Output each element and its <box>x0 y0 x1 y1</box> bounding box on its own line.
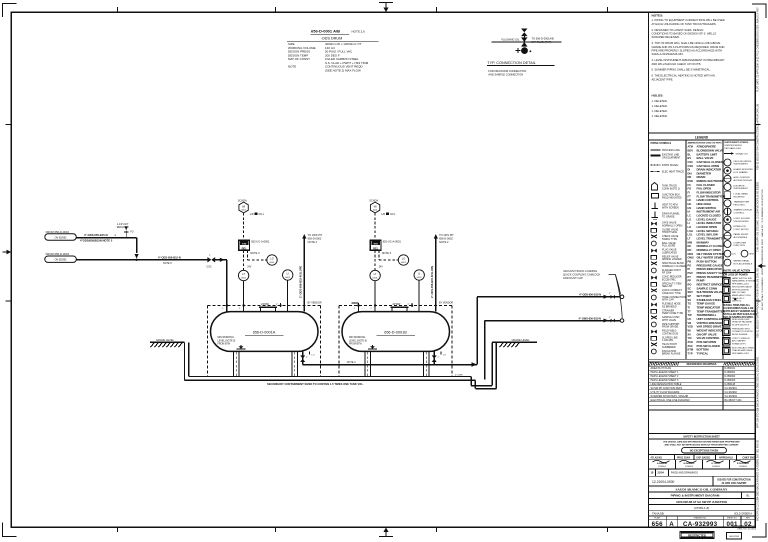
svg-text:CONTINUOUS: CONTINUOUS <box>662 332 678 335</box>
svg-text:MIN WORKING: MIN WORKING <box>218 337 234 339</box>
svg-text:TEMP CONE TYPE: TEMP CONE TYPE <box>662 312 683 315</box>
svg-text:MICROFILM 12-21004-0000 SAUDI: MICROFILM 12-21004-0000 SAUDI ARAMCO CA-… <box>757 439 760 521</box>
vessel 656-D-0001A <box>211 312 319 352</box>
dcs interface box 652-UC-A-0002 <box>370 240 401 255</box>
svg-text:CONTROL: CONTROL <box>734 213 745 215</box>
svg-text:FUNCTION: FUNCTION <box>734 245 746 247</box>
svg-text:2"-ODS-656-B15-N SLOPE: 2"-ODS-656-B15-N SLOPE <box>430 266 434 298</box>
svg-text:NO.1: NO.1 <box>390 214 396 216</box>
svg-text:SAUDI ARAMCO OIL COMPANY: SAUDI ARAMCO OIL COMPANY <box>675 487 728 491</box>
svg-text:CSC: CSC <box>688 160 694 164</box>
svg-text:4"-OWS: 4"-OWS <box>455 375 463 377</box>
svg-text:4. LEVEL INSTRUMENT ARRANGEMEN: 4. LEVEL INSTRUMENT ARRANGEMENT IS PRELI… <box>652 58 725 62</box>
svg-text:SKID EDGE LIMIT: SKID EDGE LIMIT <box>732 319 750 321</box>
svg-text:LEVEL (NOTE 8): LEVEL (NOTE 8) <box>349 340 367 342</box>
svg-text:D-950003: D-950003 <box>725 379 736 382</box>
svg-text:TRANSMITTER: TRANSMITTER <box>734 201 750 204</box>
legend table <box>649 133 756 362</box>
svg-text:RESTRICTED: RESTRICTED <box>688 534 706 538</box>
reducer callout <box>117 223 134 238</box>
svg-text:FIELD MOUNTED: FIELD MOUNTED <box>734 161 752 163</box>
svg-text:PIPING & INSTRUMENT DIAGRAM: PIPING & INSTRUMENT DIAGRAM <box>671 494 720 498</box>
off-page connector upper <box>620 295 624 299</box>
svg-text:D-950001: D-950001 <box>725 371 736 374</box>
svg-text:PEFS LEGEND SHEET 1: PEFS LEGEND SHEET 1 <box>651 371 680 374</box>
svg-text:INTERLOCK: INTERLOCK <box>734 226 747 228</box>
svg-text:24V: 24V <box>247 267 252 269</box>
svg-text:6. THE ELECTRICAL HEATING IS N: 6. THE ELECTRICAL HEATING IS NOTED WITH … <box>652 74 715 78</box>
svg-text:SS: SS <box>688 298 692 302</box>
svg-text:LG: LG <box>270 257 273 261</box>
pipe lower feed header <box>76 256 207 266</box>
svg-text:FO: FO <box>130 232 133 234</box>
svg-text:VB: VB <box>688 321 692 325</box>
svg-text:SHARED DISPLAY: SHARED DISPLAY <box>734 209 753 212</box>
svg-text:ECCENTRIC: ECCENTRIC <box>662 278 676 281</box>
svg-text:ATLAS NO: ATLAS NO <box>651 456 663 459</box>
svg-text:SAES-A-004/SAES-B-064.: SAES-A-004/SAES-B-064. <box>652 52 684 56</box>
svg-text:SWING TYPE: SWING TYPE <box>662 238 677 241</box>
svg-text:(SEE NOTE 2) MAX FLOW: (SEE NOTE 2) MAX FLOW <box>325 68 361 72</box>
svg-text:ODS DRUM: ODS DRUM <box>322 36 343 40</box>
svg-text:656-D-0002: 656-D-0002 <box>308 237 322 241</box>
svg-text:21/04: 21/04 <box>658 472 665 475</box>
svg-text:2: 2 <box>222 308 223 310</box>
svg-text:ACCESSIBLE: ACCESSIBLE <box>734 236 748 239</box>
svg-text:HAND SWITCH ESD: HAND SWITCH ESD <box>732 277 753 280</box>
svg-text:STEAM (TYP): STEAM (TYP) <box>732 342 746 345</box>
vent line to ODS pit 656-D-0001B <box>430 233 454 311</box>
grade level left <box>150 338 185 347</box>
svg-text:WITH SOLENOID: WITH SOLENOID <box>732 289 750 291</box>
svg-text:ON 932992: ON 932992 <box>55 260 67 262</box>
svg-text:NOTE 2,6: NOTE 2,6 <box>352 30 366 34</box>
svg-text:BA-950277-001: BA-950277-001 <box>725 399 743 402</box>
svg-text:FI: FI <box>688 191 691 195</box>
svg-text:NUMBERED: NUMBERED <box>662 346 676 349</box>
svg-text:PLANT: PLANT <box>654 517 661 520</box>
svg-text:PG: PG <box>688 263 692 267</box>
svg-text:FLUSHING OIL: FLUSHING OIL <box>501 38 520 42</box>
svg-text:WITH CAP: WITH CAP <box>662 299 674 302</box>
svg-text:LI: LI <box>287 272 289 276</box>
svg-text:656-D-0001A: 656-D-0001A <box>253 330 276 334</box>
svg-text:CAMLOCK TYPE: CAMLOCK TYPE <box>662 292 681 295</box>
svg-text:NOTE 2: NOTE 2 <box>439 240 449 244</box>
svg-text:656-D-0001 A/B: 656-D-0001 A/B <box>311 29 340 34</box>
svg-text:ZSC: ZSC <box>688 344 693 348</box>
svg-text:D-950118: D-950118 <box>725 383 736 386</box>
off-page connector lower <box>620 319 624 323</box>
svg-text:FROM GRADE: FROM GRADE <box>662 326 679 329</box>
svg-text:LEVEL (NOTE 8): LEVEL (NOTE 8) <box>218 340 236 342</box>
level gauge LG 656-D-0001B <box>398 255 408 265</box>
svg-text:NOTE: NOTE <box>288 65 296 69</box>
svg-text:DR: DR <box>688 175 692 179</box>
svg-text:BV: BV <box>688 156 692 160</box>
reference drawings table <box>649 362 756 409</box>
svg-text:3. TOP OF DRUM WILL SHALL BE 1: 3. TOP OF DRUM WILL SHALL BE 1200mm MIN … <box>652 41 721 45</box>
scada hexagon WI 656-D-0001B <box>369 199 396 216</box>
support leg 1 656-D-0001B <box>365 351 370 376</box>
svg-text:BEHIND PANEL: BEHIND PANEL <box>734 260 751 263</box>
svg-text:TO ODS PIT: TO ODS PIT <box>308 233 323 237</box>
svg-text:LT: LT <box>374 272 377 276</box>
svg-text:WI: WI <box>242 205 245 208</box>
svg-text:PROJ 21004: PROJ 21004 <box>677 456 691 459</box>
svg-text:24"MW: 24"MW <box>261 303 269 306</box>
svg-text:IA: IA <box>688 210 691 214</box>
svg-text:YIC: YIC <box>688 336 692 340</box>
signal wire dcs to LT 656-D-0001A <box>244 250 252 270</box>
svg-text:DISCRETE: DISCRETE <box>734 185 746 187</box>
svg-text:WITH VALVE: WITH VALVE <box>662 319 677 322</box>
svg-text:TO GRADE: TO GRADE <box>662 215 675 218</box>
svg-text:DO NOT SCALE THIS DRAWING - VE: DO NOT SCALE THIS DRAWING - VERIFY ALL D… <box>761 189 764 310</box>
svg-text:SA SW PP JUNCTION PEFS: SA SW PP JUNCTION PEFS <box>651 387 683 390</box>
svg-text:TYPICAL: TYPICAL <box>697 351 709 355</box>
svg-text:LT: LT <box>688 237 691 241</box>
svg-text:5. SUMMER PIPING SHALL BE SYMM: 5. SUMMER PIPING SHALL BE SYMMETRICAL. <box>652 68 711 72</box>
svg-text:LC: LC <box>688 214 692 218</box>
svg-text:BOARD MOUNTED: BOARD MOUNTED <box>734 168 754 171</box>
svg-text:FC: FC <box>688 183 692 187</box>
svg-text:ODS DRUM AT SA SW PP JUNCTION: ODS DRUM AT SA SW PP JUNCTION <box>676 500 726 504</box>
svg-text:4"ODS(656)B15N NOTE 5: 4"ODS(656)B15N NOTE 5 <box>80 238 113 242</box>
svg-text:SCOPE (NOTE 7): SCOPE (NOTE 7) <box>732 324 750 326</box>
svg-text:1. PIPING TO EQUIPMENT CONNECT: 1. PIPING TO EQUIPMENT CONNECTIONS WILL … <box>652 18 725 22</box>
svg-text:MOUNTED: MOUNTED <box>734 196 745 198</box>
svg-text:UTILITY FLOW DIAGRAM: UTILITY FLOW DIAGRAM <box>651 391 680 394</box>
svg-text:2": 2" <box>438 357 440 359</box>
svg-text:APPROVALS: APPROVALS <box>719 456 733 459</box>
svg-text:ON 932992: ON 932992 <box>55 237 67 239</box>
svg-text:PER SAES-J-901: PER SAES-J-901 <box>732 352 750 355</box>
svg-text:LG: LG <box>402 257 405 261</box>
svg-text:TYP: TYP <box>688 351 693 355</box>
svg-text:FROM 656-D-0002: FROM 656-D-0002 <box>46 230 70 234</box>
svg-text:WI: WI <box>374 205 377 208</box>
svg-text:LOGIC (NOTE): LOGIC (NOTE) <box>734 229 749 231</box>
legend equipment symbols <box>651 183 686 356</box>
svg-text:NOTE 9: NOTE 9 <box>163 262 172 265</box>
svg-text:BLIND FLANGE: BLIND FLANGE <box>732 333 748 336</box>
svg-text:PRESSURE TEST: PRESSURE TEST <box>732 329 750 331</box>
signal wire hexagon to dcs box 656-D-0001B <box>374 213 376 240</box>
svg-text:NOTES:: NOTES: <box>652 13 664 17</box>
drain valve 656-D-0001B <box>432 351 447 364</box>
svg-text:HH: HH <box>688 202 692 206</box>
svg-text:DIA: DIA <box>688 171 693 175</box>
svg-text:FROM BTM: FROM BTM <box>349 344 361 346</box>
wire vertical joining feeds <box>135 238 139 259</box>
svg-text:CA-932993: CA-932993 <box>729 535 740 538</box>
off-page connector FROM 656-D-0002 <box>45 230 77 240</box>
svg-text:656-D-0001B: 656-D-0001B <box>384 330 407 334</box>
svg-text:AIR / WATER /: AIR / WATER / <box>732 340 746 343</box>
svg-text:DRAWING NO.: DRAWING NO. <box>694 517 707 520</box>
svg-text:SPRING LOADED: SPRING LOADED <box>662 258 682 261</box>
svg-text:NO: NO <box>688 248 692 252</box>
min working level mark 656-D-0001B <box>349 337 377 349</box>
riser to truck loading <box>476 297 478 365</box>
legend esd section <box>723 269 758 319</box>
svg-text:NORMALLY OPEN: NORMALLY OPEN <box>662 224 683 227</box>
legend package scope squares <box>723 319 755 355</box>
margin revision text <box>757 7 765 521</box>
svg-text:IDENTIFICATION: IDENTIFICATION <box>725 144 743 147</box>
svg-text:REV 02 ISSUED FOR CONSTRUCTION: REV 02 ISSUED FOR CONSTRUCTION 21-APR-04… <box>757 104 760 170</box>
svg-text:D-950021: D-950021 <box>725 367 736 370</box>
svg-text:TW: TW <box>688 313 693 317</box>
svg-text:PEFS LEGEND SHEET 3: PEFS LEGEND SHEET 3 <box>651 379 680 382</box>
svg-text:(UTMN-1-8): (UTMN-1-8) <box>694 506 709 510</box>
off-page connector FROM 656-D-0003 <box>45 252 77 263</box>
svg-text:AREA PLOT PLAN: AREA PLOT PLAN <box>651 367 672 370</box>
pipe upper feed <box>76 233 136 242</box>
nozzle dots 656-D-0001A <box>222 301 322 310</box>
svg-text:MIN WORKING: MIN WORKING <box>349 337 365 339</box>
svg-text:LO: LO <box>688 225 692 229</box>
svg-text:AND DUST CAP: AND DUST CAP <box>563 276 583 280</box>
svg-text:24"MW: 24"MW <box>393 303 401 306</box>
support leg 1 656-D-0001A <box>233 351 238 376</box>
svg-text:FT: FT <box>688 194 692 198</box>
svg-text:SC: SC <box>688 286 692 290</box>
svg-text:2: 2 <box>371 308 372 310</box>
svg-text:MAT OF CONST: MAT OF CONST <box>288 57 310 61</box>
svg-text:BY VENDOR: BY VENDOR <box>308 301 322 304</box>
svg-text:LSH: LSH <box>688 229 693 233</box>
svg-text:2: 2 <box>239 308 240 310</box>
svg-text:CONDITIONS TO BASED ON DESIGN: CONDITIONS TO BASED ON DESIGN OF S. WELL… <box>652 32 717 36</box>
level indicator LI 656-D-0001B <box>414 270 424 280</box>
svg-text:FO: FO <box>688 187 692 191</box>
svg-text:LOGIC SOLVER: LOGIC SOLVER <box>734 218 751 220</box>
svg-text:1. DELETED.: 1. DELETED. <box>652 114 668 118</box>
svg-text:652-UC-A-0001: 652-UC-A-0001 <box>383 240 402 244</box>
svg-text:FIELD MOUNTED: FIELD MOUNTED <box>662 197 682 200</box>
svg-text:BREAK FLANGE: BREAK FLANGE <box>662 353 681 356</box>
svg-text:2": 2" <box>609 293 611 295</box>
svg-text:SOLD ORDER A: SOLD ORDER A <box>734 512 752 515</box>
svg-text:TANAJIB: TANAJIB <box>652 511 664 515</box>
insulation dashed boundary 656-D-0001B <box>339 306 452 377</box>
svg-text:BL: BL <box>688 152 692 156</box>
svg-text:TI: TI <box>688 305 691 309</box>
svg-text:GRADE AND ON A PLATFORM AS REQ: GRADE AND ON A PLATFORM AS REQUIRED, DRU… <box>652 45 725 49</box>
svg-text:LI: LI <box>418 272 420 276</box>
svg-text:VSD: VSD <box>688 325 693 329</box>
signal wire dcs to LG 656-D-0001A <box>248 250 267 260</box>
svg-text:4"-ODS-656-B15-N: 4"-ODS-656-B15-N <box>158 256 181 260</box>
svg-text:HS: HS <box>688 206 692 210</box>
panel divider <box>648 12 650 527</box>
svg-text:TRACED AND INSUL: TRACED AND INSUL <box>732 349 754 352</box>
svg-text:PLOT DATE: 22-APR-2004 14:32 F: PLOT DATE: 22-APR-2004 14:32 FILE: CA932… <box>757 7 760 92</box>
svg-text:MW: MW <box>688 240 693 244</box>
svg-text:ACCESS DISPLAY: ACCESS DISPLAY <box>734 179 753 182</box>
svg-text:DCS SHARED: DCS SHARED <box>734 171 749 174</box>
svg-text:PIPE ARE PROPERLY SLOPED AS AC: PIPE ARE PROPERLY SLOPED AS ACCORDANCE W… <box>652 49 723 53</box>
svg-text:CONNECTION WITH: CONNECTION WITH <box>732 331 753 333</box>
title block <box>649 434 756 529</box>
svg-text:TYP. CONNECTION DETAIL: TYP. CONNECTION DETAIL <box>487 61 536 65</box>
svg-text:LINE DESIGNATION TABLE: LINE DESIGNATION TABLE <box>651 383 682 386</box>
svg-text:SCADA: SCADA <box>369 199 378 203</box>
grade level right <box>492 338 537 347</box>
svg-text:ADJACENT PIPE.: ADJACENT PIPE. <box>652 77 674 81</box>
svg-text:CA-932991: CA-932991 <box>725 387 738 390</box>
svg-text:RF 150#: RF 150# <box>662 272 672 275</box>
svg-text:NORMALLY CLOSED: NORMALLY CLOSED <box>662 265 686 268</box>
manway 656-D-0001A <box>259 303 282 311</box>
svg-text:K.YUSUF: K.YUSUF <box>711 463 721 465</box>
svg-text:22/04/04: 22/04/04 <box>658 466 667 468</box>
svg-text:THROTTLING: THROTTLING <box>662 231 677 234</box>
svg-text:L/R: L/R <box>250 213 254 216</box>
svg-text:652-UC-A-0001: 652-UC-A-0001 <box>251 240 270 244</box>
svg-text:SAFETY INSTRUCTION SHEET: SAFETY INSTRUCTION SHEET <box>683 436 720 439</box>
svg-text:TO ODS PIT: TO ODS PIT <box>439 233 454 237</box>
signal wire dcs to LG 656-D-0001B <box>379 250 398 260</box>
svg-text:THE DESIGN, DATA AND INFORMATI: THE DESIGN, DATA AND INFORMATION SHOWN H… <box>663 440 740 443</box>
legend instrument symbols <box>724 142 754 266</box>
instrument line LT nozzle 656-D-0001A <box>243 281 245 312</box>
svg-text:FULL BORE: FULL BORE <box>662 245 676 248</box>
dcs interface box 652-UC-A-0001 <box>239 240 270 255</box>
svg-text:NO EXCEPTIONS TAKEN: NO EXCEPTIONS TAKEN <box>690 450 719 453</box>
containment berm outline <box>185 342 497 388</box>
svg-text:ELEC HEAT TRACE: ELEC HEAT TRACE <box>662 170 684 173</box>
svg-text:BTM: BTM <box>688 348 694 352</box>
instrument line LI nozzle 656-D-0001B <box>418 280 420 311</box>
drop into sump <box>484 321 486 380</box>
svg-text:SAUDI ARAMCO 3297-001: SAUDI ARAMCO 3297-001 <box>732 524 757 527</box>
svg-text:REM: REM <box>749 254 754 256</box>
svg-text:0001: 0001 <box>417 277 423 279</box>
svg-text:SP: SP <box>688 294 692 298</box>
typ connection detail <box>487 29 562 77</box>
svg-text:LI: LI <box>688 221 691 225</box>
svg-text:0001: 0001 <box>270 262 276 264</box>
level indicator LI 656-D-0001A <box>283 270 293 280</box>
svg-text:VENDOR PACKAGE: VENDOR PACKAGE <box>732 321 753 324</box>
svg-text:12-21004-0000: 12-21004-0000 <box>652 480 675 484</box>
svg-text:REL: REL <box>242 246 248 250</box>
wire feed to vessel A inlet <box>215 258 227 312</box>
svg-text:(NOTE 5): (NOTE 5) <box>732 301 741 303</box>
svg-text:0001: 0001 <box>401 262 407 264</box>
svg-text:0001: 0001 <box>241 277 247 279</box>
svg-text:SHUTDOWN VALVE: SHUTDOWN VALVE <box>732 286 752 289</box>
svg-text:FROM BTM: FROM BTM <box>218 344 230 346</box>
level gauge LG 656-D-0001A <box>267 255 277 265</box>
svg-text:QUICK COUPLING CAMLOCK: QUICK COUPLING CAMLOCK <box>563 273 601 277</box>
svg-text:22/04/04: 22/04/04 <box>712 466 721 468</box>
svg-text:HOLDS:: HOLDS: <box>652 93 664 97</box>
svg-text:ODS: ODS <box>688 252 694 256</box>
svg-text:▼: ▼ <box>114 234 116 237</box>
svg-text:2": 2" <box>276 304 278 306</box>
svg-text:GRADE LEVEL: GRADE LEVEL <box>512 338 531 342</box>
svg-text:STD: STD <box>374 244 379 246</box>
svg-text:LEGEND: LEGEND <box>695 135 709 139</box>
restricted stamp <box>680 532 714 538</box>
svg-text:UTILITY STATION: UTILITY STATION <box>732 337 750 340</box>
svg-text:GRADE LEVEL: GRADE LEVEL <box>156 338 175 342</box>
svg-text:CSC: CSC <box>207 266 212 269</box>
svg-text:22/04/04: 22/04/04 <box>685 466 694 468</box>
svg-text:2: 2 <box>354 308 355 310</box>
signal wire dcs to LT 656-D-0001B <box>375 250 383 270</box>
doc control stamp <box>727 524 757 538</box>
svg-text:PEFS LEGEND SHEET 2: PEFS LEGEND SHEET 2 <box>651 375 680 378</box>
svg-text:0001: 0001 <box>285 277 291 279</box>
svg-text:CA-932994: CA-932994 <box>725 395 738 398</box>
svg-text:CA-932992: CA-932992 <box>725 391 738 394</box>
svg-text:NOTE 3: NOTE 3 <box>382 251 392 255</box>
vessel 656-D-0001B <box>342 312 450 352</box>
svg-text:656: 656 <box>652 521 663 528</box>
svg-text:ON LOSS OF POWER: ON LOSS OF POWER <box>724 273 749 276</box>
svg-text:22 APR 2004 SA/PMT: 22 APR 2004 SA/PMT <box>721 482 747 485</box>
svg-text:NC: NC <box>688 244 692 248</box>
svg-text:SDV: SDV <box>688 290 694 294</box>
svg-text:AND SAMPLE CONNECTION: AND SAMPLE CONNECTION <box>488 72 523 76</box>
signal wire hexagon to dcs box 656-D-0001A <box>243 213 245 240</box>
svg-text:NOTE 3: NOTE 3 <box>250 251 260 255</box>
svg-text:LT: LT <box>242 272 245 276</box>
svg-text:INSTR SIGNAL: INSTR SIGNAL <box>662 164 679 167</box>
svg-text:PROCESS LINE: PROCESS LINE <box>662 149 680 152</box>
svg-text:INSTRUMENT SYMBOL: INSTRUMENT SYMBOL <box>725 142 750 144</box>
svg-text:WITH SCREEN: WITH SCREEN <box>662 206 679 209</box>
svg-text:1. DELETED.: 1. DELETED. <box>652 104 668 108</box>
svg-text:1:100 MIN: 1:100 MIN <box>662 339 673 342</box>
svg-text:NOTE 4: NOTE 4 <box>347 361 356 364</box>
svg-text:0001: 0001 <box>373 277 379 279</box>
svg-text:4"-ODS-656-B15-N: 4"-ODS-656-B15-N <box>579 294 601 297</box>
svg-text:PSV: PSV <box>688 271 693 275</box>
pipe drain header <box>303 361 477 367</box>
svg-text:CHIEF ENG: CHIEF ENG <box>743 457 756 459</box>
support leg 2 656-D-0001A <box>292 351 297 376</box>
svg-text:B1: B1 <box>746 494 750 498</box>
svg-text:NO.1: NO.1 <box>259 214 265 216</box>
svg-text:AT EACH UNLOADING OF TANK TRUC: AT EACH UNLOADING OF TANK TRUCK/TRAILERS… <box>652 22 717 26</box>
svg-text:CSO: CSO <box>688 164 694 168</box>
svg-text:LO: LO <box>443 355 446 357</box>
svg-text:HC: HC <box>688 198 692 202</box>
svg-text:D-950002: D-950002 <box>725 375 736 378</box>
svg-text:ZSO: ZSO <box>688 340 693 344</box>
svg-text:LOC: LOC <box>732 254 737 256</box>
level transmitter LT 656-D-0001B <box>370 270 380 280</box>
svg-text:BDV: BDV <box>688 148 694 152</box>
support leg 2 656-D-0001B <box>424 351 429 376</box>
svg-text:4"-ODS-656-B15-N: 4"-ODS-656-B15-N <box>84 233 108 237</box>
svg-text:PANEL FRONT: PANEL FRONT <box>734 233 750 236</box>
manway 656-D-0001B <box>390 303 413 311</box>
svg-text:OR EQUIPMENT: OR EQUIPMENT <box>662 156 681 159</box>
svg-text:SCRAPER RECEIVER.: SCRAPER RECEIVER. <box>652 35 680 39</box>
legend abbreviations <box>687 142 727 356</box>
svg-text:CONN (NOTE 1): CONN (NOTE 1) <box>662 187 680 190</box>
svg-text:PT: PT <box>688 275 692 279</box>
instrument line LT nozzle 656-D-0001B <box>374 281 376 312</box>
svg-text:INSTR. VALVE ACTION: INSTR. VALVE ACTION <box>724 269 751 273</box>
